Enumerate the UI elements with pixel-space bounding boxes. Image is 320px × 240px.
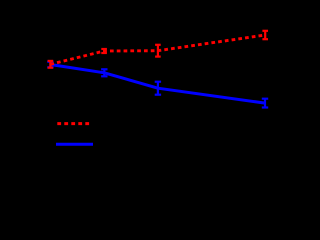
blue error bar P4: [262, 99, 268, 108]
blue series line: [50, 65, 265, 104]
red error bar P3: [155, 45, 161, 57]
blue error bar P1: [47, 62, 53, 68]
legend red dashed sample: [57, 122, 89, 125]
red error bar P4: [262, 31, 268, 39]
red error bar P2: [101, 49, 107, 53]
legend blue solid sample: [56, 143, 93, 146]
blue error bar P2: [101, 69, 107, 76]
red series dashed line: [50, 35, 265, 64]
blue error bar P3: [155, 82, 161, 95]
red error bar P1: [48, 61, 54, 68]
